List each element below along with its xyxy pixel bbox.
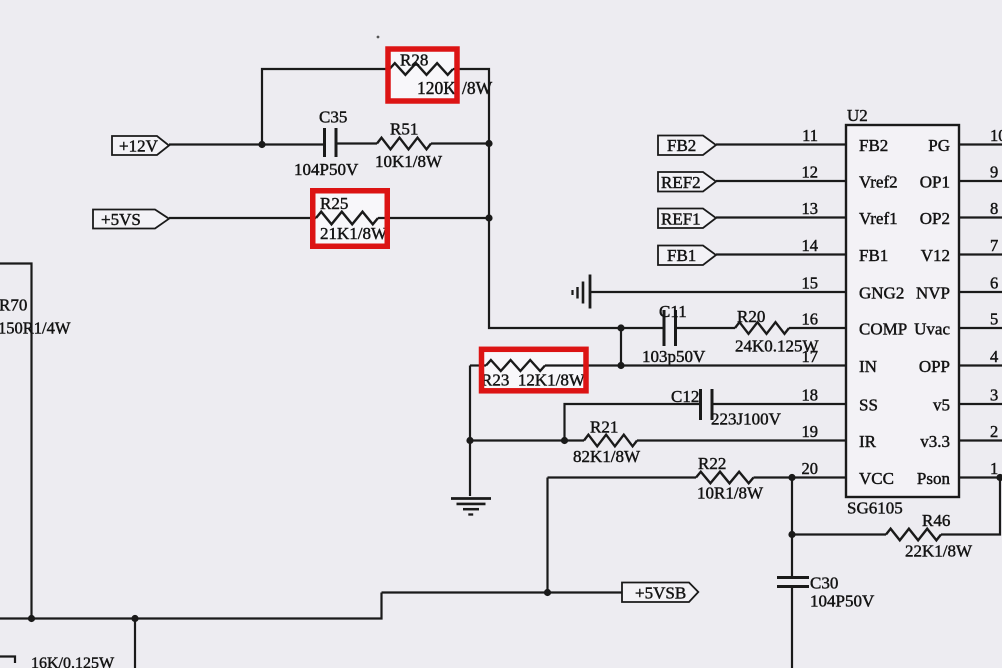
highlight box R28 (white fill): [385, 46, 459, 104]
capacitor C35: [323, 128, 326, 157]
svg-text:+12V: +12V: [119, 137, 159, 156]
node junction +12V/R28 branch: [258, 141, 265, 148]
wire right pin 4: [959, 364, 1002, 366]
svg-text:R22: R22: [698, 454, 726, 473]
svg-text:18: 18: [802, 386, 819, 405]
node junction SS/IR link: [561, 437, 568, 444]
svg-text:3: 3: [990, 386, 998, 405]
svg-text:150R1/4W: 150R1/4W: [0, 319, 71, 338]
svg-text:VCC: VCC: [859, 469, 894, 488]
wire right pin 1: [959, 476, 1002, 478]
flag +5VSB: [622, 583, 698, 603]
wire right pin 7: [959, 253, 1002, 255]
svg-text:C11: C11: [659, 302, 687, 321]
svg-text:10K1/8W: 10K1/8W: [375, 152, 443, 171]
svg-text:2: 2: [990, 422, 998, 441]
svg-text:REF1: REF1: [661, 210, 701, 229]
svg-text:FB1: FB1: [667, 246, 696, 265]
resistor R28: [390, 63, 454, 75]
node junction Pson: [996, 474, 1002, 481]
wire R21 to pin19: [637, 439, 846, 441]
svg-text:4: 4: [990, 347, 998, 366]
wire R51 to rail: [431, 142, 489, 144]
capacitor C30: [777, 576, 809, 579]
svg-text:13: 13: [802, 199, 819, 218]
wire C35 to R51: [338, 142, 378, 144]
svg-text:11: 11: [802, 126, 818, 145]
node junction IR row: [466, 437, 473, 444]
wire R46 row: [792, 533, 886, 535]
resistor R21: [584, 435, 637, 447]
capacitor C11: [663, 310, 666, 346]
resistor R25: [316, 212, 378, 225]
svg-text:104P50V: 104P50V: [294, 160, 359, 179]
svg-text:V12: V12: [921, 246, 950, 265]
wire fragment bottom-left corner: [0, 657, 15, 664]
svg-text:1: 1: [990, 459, 998, 478]
wire pin13: [716, 216, 846, 218]
wire pin11: [716, 143, 846, 145]
svg-text:R21: R21: [590, 418, 618, 437]
resistor R46: [886, 529, 941, 541]
svg-text:20: 20: [802, 459, 819, 478]
wire R23 to pin17: [545, 364, 846, 366]
svg-text:16: 16: [802, 310, 819, 329]
wire right pin 3: [959, 403, 1002, 405]
svg-text:COMP: COMP: [859, 320, 907, 339]
wire C11 to R20: [677, 327, 735, 329]
svg-text:OP1: OP1: [920, 173, 950, 192]
svg-text:82K1/8W: 82K1/8W: [573, 447, 641, 466]
svg-text:6: 6: [990, 274, 998, 293]
wire right pin 9: [959, 180, 1002, 182]
flag REF1: [658, 209, 716, 229]
wire right rail down to COMP row: [489, 144, 621, 329]
wire right pin 8: [959, 216, 1002, 218]
wire VCC row left: [548, 476, 697, 478]
capacitor C12: [699, 389, 702, 420]
svg-text:R46: R46: [922, 511, 950, 530]
flag +5VS: [93, 210, 169, 229]
wire R22 left branch down: [546, 478, 548, 593]
flag FB2: [658, 136, 716, 156]
wire R25 to rail: [378, 217, 489, 219]
wire C30 to bottom edge: [791, 587, 793, 668]
highlight box R25: [313, 191, 388, 247]
svg-text:FB2: FB2: [859, 136, 888, 155]
flag FB1: [658, 246, 716, 266]
svg-text:C30: C30: [810, 574, 838, 593]
ground (pin 15, pointing left): [573, 275, 591, 309]
wire ground branch vertical: [469, 366, 471, 497]
wire right pin 5: [959, 327, 1002, 329]
wire right pin 2: [959, 439, 1002, 441]
svg-text:Vref1: Vref1: [859, 209, 898, 228]
resistor R22: [696, 472, 754, 484]
svg-text:Vref2: Vref2: [859, 173, 898, 192]
svg-text:v3.3: v3.3: [920, 432, 950, 451]
wire +5VSB row: [382, 591, 623, 593]
resistor R20: [735, 322, 789, 334]
svg-text:5: 5: [990, 310, 998, 329]
wire pin12: [716, 180, 846, 182]
highlight box R25 (white fill): [310, 188, 390, 249]
resistor R51: [377, 138, 431, 150]
wire COMP to C11: [621, 327, 663, 329]
wire VCC branch down: [791, 478, 793, 577]
svg-text:+5VS: +5VS: [101, 210, 141, 229]
wire R28 to right rail: [453, 69, 489, 144]
wire right pin 6: [959, 291, 1002, 293]
svg-text:120K: 120K: [417, 78, 456, 98]
svg-text:Pson: Pson: [917, 469, 951, 488]
svg-text:Uvac: Uvac: [914, 320, 950, 339]
wire R20 to pin16: [789, 327, 846, 329]
svg-text:21K1/8W: 21K1/8W: [320, 224, 388, 243]
svg-text:PG: PG: [928, 136, 950, 155]
svg-text:SG6105: SG6105: [847, 499, 903, 518]
svg-text:8: 8: [990, 199, 998, 218]
svg-text:16K/0.125W: 16K/0.125W: [31, 655, 115, 668]
svg-text:R28: R28: [400, 51, 428, 70]
flag REF2: [658, 172, 716, 192]
svg-text:FB1: FB1: [859, 246, 888, 265]
svg-text:OPP: OPP: [919, 357, 950, 376]
node junction COMP/IN link: [617, 324, 624, 331]
wire R46 to Pson: [941, 478, 1000, 535]
wire +12V row: [169, 143, 323, 145]
svg-text:R51: R51: [390, 120, 418, 139]
svg-text:C35: C35: [319, 108, 347, 127]
wire link COMP-IN vertical: [620, 328, 622, 366]
wire +5VS row: [169, 217, 316, 219]
wire C12 to pin18: [714, 403, 847, 405]
node junction bottom left: [28, 615, 35, 622]
node junction bottom second: [131, 615, 138, 622]
svg-text:15: 15: [802, 274, 819, 293]
speck: [377, 36, 380, 39]
svg-text:R20: R20: [737, 307, 765, 326]
node junction R46: [788, 531, 795, 538]
svg-text:IN: IN: [859, 357, 877, 376]
svg-text:R70: R70: [0, 296, 27, 315]
svg-text:22K1/8W: 22K1/8W: [905, 542, 973, 561]
svg-text:7: 7: [990, 236, 998, 255]
svg-text:R25: R25: [320, 194, 348, 213]
node junction IN row: [617, 362, 624, 369]
op-amp U2 (SG6105 IC body): [846, 125, 959, 497]
svg-text:9: 9: [990, 163, 998, 182]
svg-text:10: 10: [990, 126, 1002, 145]
wire GNG2 row: [591, 291, 846, 293]
svg-text:C12: C12: [671, 387, 699, 406]
svg-text:OP2: OP2: [920, 209, 950, 228]
resistor R23: [486, 360, 545, 371]
node junction +5VSB/R22: [544, 589, 551, 596]
wire IN row left: [470, 364, 486, 366]
svg-text:REF2: REF2: [661, 173, 701, 192]
svg-text:+5VSB: +5VSB: [635, 584, 686, 603]
svg-text:FB2: FB2: [667, 136, 696, 155]
svg-text:IR: IR: [859, 432, 877, 451]
highlight box R23 (white fill): [479, 347, 589, 394]
svg-text:14: 14: [802, 236, 819, 255]
svg-text:GNG2: GNG2: [859, 284, 904, 303]
wire pin14: [716, 253, 846, 255]
wire R70 branch: [0, 264, 32, 619]
svg-text:R23 12K1/8W: R23 12K1/8W: [481, 371, 586, 390]
svg-text:103p50V: 103p50V: [642, 347, 706, 366]
highlight box R28: [388, 49, 457, 101]
svg-text:v5: v5: [933, 396, 950, 415]
wire bottom bus: [0, 593, 382, 619]
wire R22 to pin20: [754, 476, 847, 478]
node junction rail/R25: [485, 214, 492, 221]
highlight box R23: [482, 349, 587, 391]
svg-text:17: 17: [802, 347, 819, 366]
svg-text:10R1/8W: 10R1/8W: [697, 484, 764, 503]
node junction VCC: [788, 474, 795, 481]
wire lower branch down: [134, 619, 136, 668]
svg-text:12: 12: [802, 163, 819, 182]
wire R28 branch left vertical: [262, 69, 390, 145]
svg-text:104P50V: 104P50V: [810, 592, 875, 611]
wire right pin 10: [959, 143, 1002, 145]
node junction rail/R51: [485, 140, 492, 147]
svg-text:223J100V: 223J100V: [711, 410, 782, 429]
svg-text:19: 19: [802, 422, 819, 441]
wire IR row: [470, 439, 584, 441]
svg-text:NVP: NVP: [916, 284, 950, 303]
wire SS link: [565, 404, 700, 441]
svg-text:U2: U2: [847, 106, 868, 125]
flag +12V: [112, 136, 169, 155]
ground (below R23): [451, 499, 491, 515]
svg-text:SS: SS: [859, 396, 878, 415]
